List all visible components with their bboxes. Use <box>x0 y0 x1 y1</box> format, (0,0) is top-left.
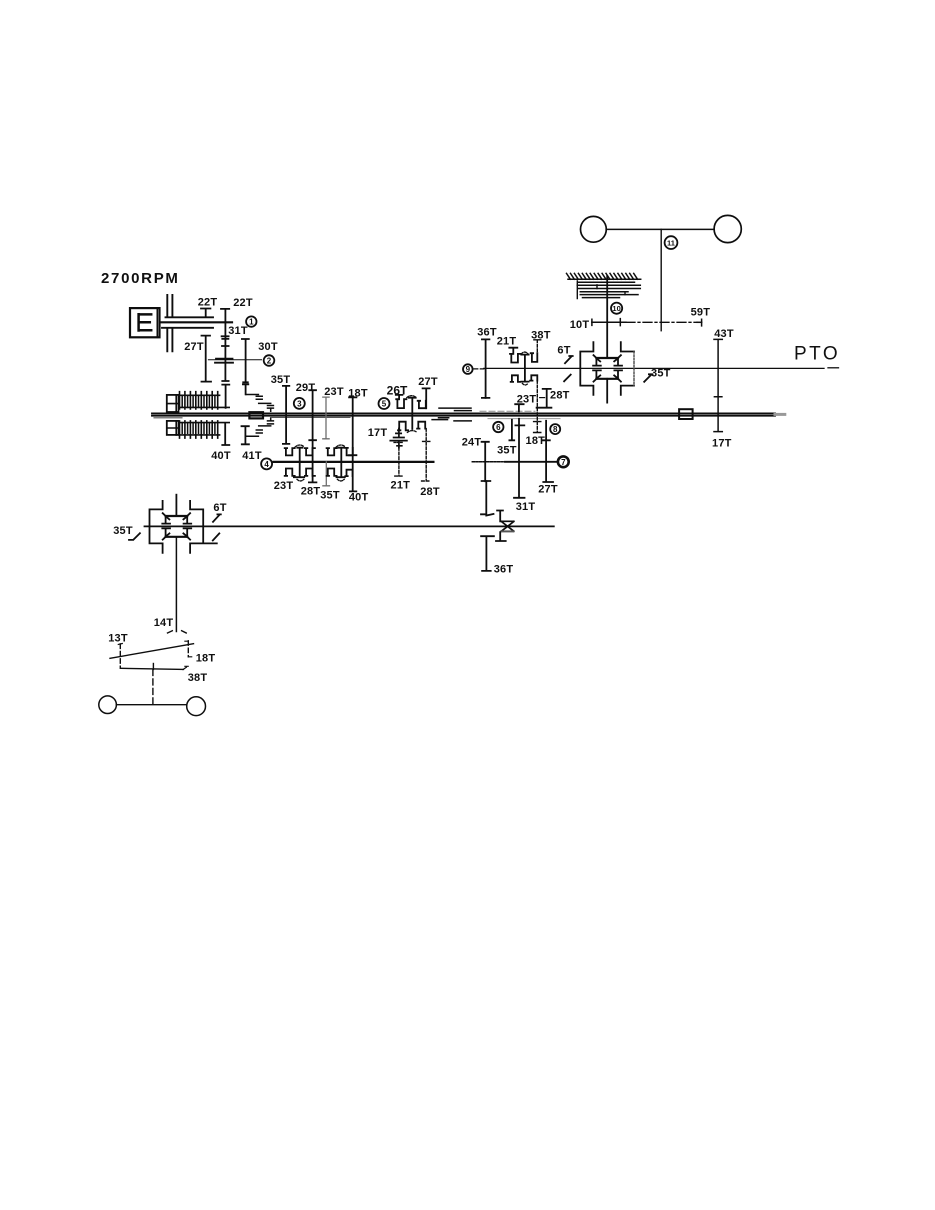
spline cluster <box>432 408 471 421</box>
gear 21T 5 <box>395 448 404 477</box>
gear 43T/17T <box>714 339 722 431</box>
svg-text:35T: 35T <box>497 445 517 457</box>
svg-text:36T: 36T <box>494 564 514 576</box>
bevel 6T 9 <box>564 356 573 381</box>
shaft 10 upper <box>606 276 608 358</box>
shaft 4 <box>274 461 434 463</box>
svg-text:18T: 18T <box>526 435 546 447</box>
gear 13T <box>119 644 121 668</box>
svg-text:35T: 35T <box>271 374 291 386</box>
svg-text:6: 6 <box>496 423 501 432</box>
synchro B cap lower <box>337 479 344 481</box>
svg-text:3: 3 <box>297 399 302 408</box>
shaft 7 <box>472 461 505 463</box>
brake plates <box>577 282 640 297</box>
node 9 <box>463 364 473 374</box>
coupling staircase upper <box>246 395 273 412</box>
synchro 5 hub cup <box>407 396 416 398</box>
clutch plates lower <box>180 421 218 438</box>
svg-text:23T: 23T <box>324 386 344 398</box>
engine box E <box>130 308 160 337</box>
range gearset left inner <box>166 516 188 537</box>
gear 30T <box>242 339 249 394</box>
svg-text:24T: 24T <box>462 437 482 449</box>
range box left outline <box>150 501 163 553</box>
svg-text:38T: 38T <box>188 672 208 684</box>
synchro 5 right sleeve lower <box>417 422 425 429</box>
node 10 <box>611 303 622 314</box>
synchro 9 right sleeve lower <box>530 375 537 380</box>
bevel 35T left <box>129 533 140 540</box>
synchro 9 left sleeve <box>510 354 520 363</box>
node 5 <box>379 398 390 409</box>
gear 27T 7 <box>543 421 553 482</box>
engine shaft 1 <box>161 321 232 323</box>
svg-text:11: 11 <box>667 239 675 248</box>
synchro 5 hub gear <box>409 398 416 429</box>
gear 18T/40T column <box>349 397 356 491</box>
bevel 6T left <box>213 514 221 540</box>
synchro A cap lower <box>297 479 304 481</box>
gear 35T mid <box>283 386 289 444</box>
synchro 5 right sleeve <box>418 401 426 408</box>
synchro A left sleeve lower <box>285 469 295 476</box>
svg-text:PTO: PTO <box>794 344 840 365</box>
synchro B hub cup <box>336 445 346 447</box>
gear 30T mesh bars <box>215 359 233 363</box>
bevel mesh X <box>501 521 513 531</box>
svg-text:2: 2 <box>267 357 272 366</box>
synchro 9 hub cup <box>521 352 528 354</box>
node 4 <box>261 458 272 469</box>
svg-text:31T: 31T <box>516 501 536 513</box>
svg-text:2700RPM: 2700RPM <box>101 270 180 287</box>
svg-text:28T: 28T <box>301 486 321 498</box>
shaft 3 main line <box>152 415 775 417</box>
svg-text:6T: 6T <box>557 345 570 357</box>
axle 11 vertical <box>660 229 662 330</box>
bevel axle 13-18 <box>110 644 194 659</box>
gear 27T a <box>202 336 212 382</box>
svg-text:13T: 13T <box>108 633 128 645</box>
gear 40T drum column <box>222 385 229 445</box>
coupling box right <box>679 409 693 419</box>
shaft 10 lower <box>606 379 608 403</box>
synchro B right sleeve <box>345 448 352 456</box>
svg-text:22T: 22T <box>198 297 218 309</box>
gear 40Tb stub <box>337 448 345 478</box>
svg-text:17T: 17T <box>368 427 388 439</box>
gear 24T <box>482 442 491 481</box>
wheel left top <box>581 216 607 242</box>
gear 14T hooks <box>168 631 187 633</box>
svg-text:18T: 18T <box>196 653 216 665</box>
coupling staircase lower <box>246 418 273 436</box>
gear 23T 9 <box>515 404 523 411</box>
svg-text:21T: 21T <box>391 480 411 492</box>
gear 41T <box>242 426 249 444</box>
gear 38T <box>534 340 541 361</box>
gear 31T long column <box>514 419 525 498</box>
synchro B left sleeve lower <box>327 469 337 476</box>
wheel bottom right <box>187 697 206 716</box>
gear 31T <box>222 337 229 381</box>
gear 23T on shaft4 <box>294 448 304 478</box>
gear 28T on shaft4 <box>309 440 317 482</box>
gear 28T 9 <box>537 389 552 408</box>
svg-text:8: 8 <box>553 425 558 434</box>
synchro 5 left sleeve <box>396 399 406 408</box>
gear 23T mid <box>323 397 329 439</box>
svg-text:35T: 35T <box>651 367 671 379</box>
clutch piston lower <box>167 421 179 435</box>
clutch plates upper <box>180 392 218 409</box>
svg-text:6T: 6T <box>213 502 226 514</box>
svg-text:10T: 10T <box>570 319 590 331</box>
svg-text:41T: 41T <box>242 450 262 462</box>
svg-text:40T: 40T <box>349 491 369 503</box>
svg-text:28T: 28T <box>550 389 570 401</box>
svg-text:7: 7 <box>561 458 566 467</box>
synchro 9 hub gear <box>521 355 528 382</box>
clutch damper lines <box>167 295 172 351</box>
gear 31T b <box>496 511 506 542</box>
svg-text:9: 9 <box>466 365 471 374</box>
synchro A hub cup <box>295 445 305 447</box>
gear 36T 9 <box>482 339 490 398</box>
node 3 <box>294 398 305 409</box>
shaft 3 upper line <box>152 412 775 414</box>
synchro 9 cap lower <box>522 383 528 385</box>
shaft 3 stub lines <box>154 416 350 418</box>
node 8 <box>550 424 560 434</box>
svg-text:1: 1 <box>249 318 254 327</box>
node 1 <box>246 316 256 326</box>
svg-text:10: 10 <box>612 304 620 313</box>
svg-text:30T: 30T <box>258 341 278 353</box>
svg-text:31T: 31T <box>228 325 248 337</box>
svg-text:36T: 36T <box>477 327 497 339</box>
svg-text:27T: 27T <box>418 376 438 388</box>
shaft 3 grey end <box>775 413 785 416</box>
node 6 <box>493 422 503 432</box>
svg-text:59T: 59T <box>691 307 711 319</box>
bevel 35T 10 <box>644 374 652 382</box>
letter E <box>139 314 152 330</box>
synchro B left sleeve <box>327 448 337 455</box>
svg-text:40T: 40T <box>211 450 231 462</box>
gear 35T on shaft4 <box>323 462 330 486</box>
final axle <box>145 525 554 527</box>
svg-text:27T: 27T <box>538 484 558 496</box>
left range vertical upper <box>175 495 177 516</box>
gear 24T lower shaft <box>481 481 494 515</box>
shaft 9 dash <box>474 368 484 370</box>
final drive lower vertical <box>152 669 154 705</box>
svg-text:27T: 27T <box>184 341 204 353</box>
synchro A right sleeve <box>305 448 315 455</box>
gear 18T 9 dashed <box>534 381 541 433</box>
gear 35T 6 short <box>509 420 514 441</box>
gear 38T b <box>152 664 154 670</box>
node 11 <box>665 236 678 249</box>
synchro 9 right sleeve <box>531 353 538 362</box>
top axle <box>606 228 714 230</box>
svg-text:4: 4 <box>264 460 269 469</box>
svg-text:43T: 43T <box>714 328 734 340</box>
node 2 <box>264 355 275 366</box>
gear 21T 9 <box>509 348 517 354</box>
bottom axle <box>116 704 186 706</box>
wheel bottom left <box>99 696 117 714</box>
shaft 9 / PTO line <box>484 367 824 369</box>
gear 17T <box>390 429 407 448</box>
clutch rails lower <box>179 423 230 435</box>
svg-text:28T: 28T <box>420 486 440 498</box>
gear 26T <box>396 395 403 399</box>
svg-text:35T: 35T <box>113 525 133 537</box>
svg-text:35T: 35T <box>320 490 340 502</box>
node 7 <box>558 456 569 467</box>
svg-text:21T: 21T <box>497 336 517 348</box>
gear 28T 5 <box>422 429 431 481</box>
gear 36T b <box>481 536 494 571</box>
lower bevel axle <box>122 668 184 669</box>
shaft 2 <box>208 359 261 361</box>
clutch rails upper <box>179 395 230 407</box>
synchro 9 left sleeve lower <box>511 375 521 382</box>
brake hatch <box>568 278 641 280</box>
shaft coupling box <box>249 412 263 418</box>
gear 27T 5 <box>423 388 430 408</box>
svg-text:22T: 22T <box>233 297 253 309</box>
svg-text:5: 5 <box>382 400 387 409</box>
svg-text:17T: 17T <box>712 438 732 450</box>
svg-text:23T: 23T <box>517 394 537 406</box>
range gearset right inner <box>596 358 618 379</box>
gear 29T <box>309 390 316 440</box>
gear 18T b <box>187 641 189 657</box>
wheel right top <box>714 215 741 242</box>
svg-text:23T: 23T <box>274 480 294 492</box>
svg-text:14T: 14T <box>154 617 174 629</box>
synchro 5 left sleeve lower <box>398 422 408 431</box>
gear 22T b <box>221 309 229 339</box>
range box right outline <box>580 342 593 395</box>
shaft fuzz segments <box>480 410 535 412</box>
synchro B right sleeve lower <box>345 470 352 476</box>
final drive vertical <box>175 537 177 632</box>
clutch piston upper <box>167 395 179 412</box>
gear 10T-59T line <box>592 321 626 323</box>
synchro A left sleeve <box>285 448 295 455</box>
gear 22T a <box>201 309 210 317</box>
synchro A right sleeve lower <box>305 469 315 476</box>
synchro 5 cap lower <box>407 431 417 433</box>
